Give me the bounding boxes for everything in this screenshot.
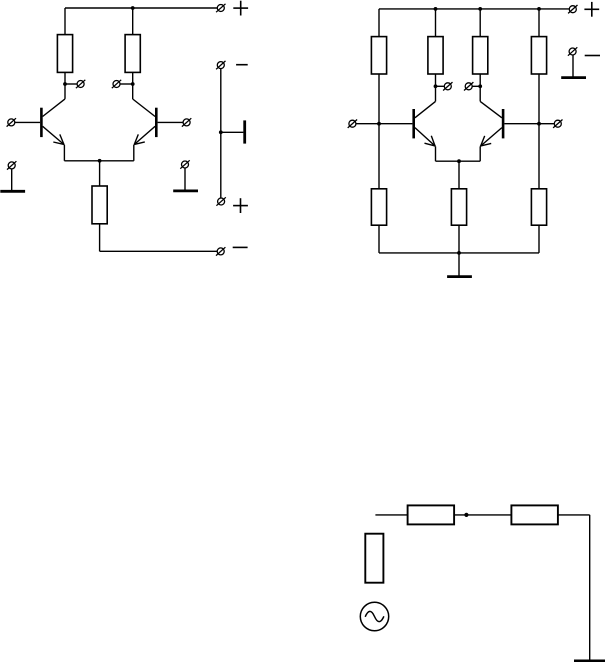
wire to ground 2 [458, 253, 460, 276]
ground circuit2 [447, 275, 472, 278]
resistor R3 (tail) [92, 186, 107, 224]
junction emitter node [98, 159, 102, 163]
resistor R7 [531, 37, 546, 74]
terminal input 3 [348, 120, 357, 128]
label - (ref) [585, 55, 600, 57]
wire to ground right [184, 168, 186, 191]
wire ref to ground [572, 55, 574, 77]
wire R5 to Q3 collector [435, 74, 437, 101]
wire to R9 tail [458, 161, 460, 189]
resistor R4 [371, 37, 386, 74]
wire R12 to corner [558, 514, 590, 516]
transistor Q4 [480, 101, 503, 146]
wire right bias rail [538, 74, 540, 189]
wire R1 to Q1 collector [64, 72, 66, 99]
wire down to ground [589, 515, 591, 661]
wire base Q3 [379, 123, 412, 125]
terminal supply plus [216, 197, 225, 205]
wire emitters join 2 [436, 160, 481, 162]
label - (supply top) [236, 64, 248, 66]
resistor R2 [125, 35, 140, 73]
terminal supply minus [216, 61, 225, 69]
terminal output A [76, 80, 85, 88]
junction collector node C [434, 84, 438, 88]
junction emitter node 2 [457, 159, 461, 163]
wire input 4 stub [539, 123, 554, 125]
transistor Q3 [414, 101, 436, 146]
wire node D stub [472, 85, 480, 87]
wire rail to R6 [479, 9, 481, 37]
terminal gnd-ref left [7, 161, 16, 169]
wire R8 to bottom rail [378, 225, 380, 253]
wire rail to R2 [132, 8, 134, 35]
transistor Q1 [41, 99, 65, 145]
terminal input 4 [553, 120, 562, 128]
terminal gnd-ref right [180, 160, 189, 168]
wire to mid ground [221, 131, 244, 133]
terminal VEE port [216, 247, 225, 255]
wire Q4 emitter down [479, 146, 481, 161]
ground ref [561, 76, 586, 79]
junction mid node [464, 513, 468, 517]
junction collector node A [63, 82, 67, 86]
resistor R8 (left bias) [371, 189, 386, 225]
wire node C stub [436, 85, 445, 87]
junction collector node D [478, 84, 482, 88]
resistor R6 [473, 37, 488, 74]
wire VCC rail [65, 7, 217, 9]
wire Q1 emitter down [63, 145, 65, 161]
terminal output C [443, 82, 452, 90]
ground right [173, 189, 198, 192]
junction rail2/R5 [434, 7, 438, 11]
ground mid (rotated) [243, 120, 246, 143]
wire rail to R4 [378, 9, 380, 37]
wire R9 to bottom rail [458, 225, 460, 253]
wire base Q1 [15, 121, 40, 123]
wire VCC rail 2 [379, 8, 569, 10]
wire Q3 emitter down [435, 146, 437, 161]
wire supply branch [220, 69, 222, 198]
ground left [0, 190, 25, 193]
label + (VCC2) [584, 2, 599, 17]
wire to ground left [11, 169, 13, 191]
terminal ref minus [568, 47, 577, 55]
terminal VCC port [216, 4, 225, 12]
label + (VCC) [233, 1, 248, 16]
wire left lead [375, 514, 407, 516]
label + (supply bottom) [233, 198, 248, 213]
label - (VEE) [233, 246, 248, 248]
terminal output B [112, 80, 121, 88]
terminal input 1 [7, 118, 16, 126]
terminal output D [464, 82, 473, 90]
resistor R12 [511, 505, 558, 524]
terminal VCC port 2 [568, 5, 577, 13]
wire base Q4 [504, 123, 539, 125]
junction rail2/R6 [478, 7, 482, 11]
junction rail2/R7 [537, 7, 541, 11]
wire rail to R5 [435, 9, 437, 37]
terminal input 2 [182, 118, 191, 126]
junction collector node B [131, 82, 135, 86]
wire emitters join [64, 160, 133, 162]
wire bottom rail [379, 252, 539, 254]
junction supply mid [219, 130, 223, 134]
wire R6 to Q4 collector [479, 74, 481, 101]
wire to tail resistor [99, 161, 101, 186]
wire VEE rail [100, 250, 218, 252]
transistor Q2 [133, 99, 157, 145]
junction rail/R2 [131, 6, 135, 10]
wire rail to R7 [538, 9, 540, 37]
wire base Q2 [158, 121, 183, 123]
resistor R9 (tail) [451, 189, 466, 225]
wire rail to R1 [64, 8, 66, 35]
resistor R1 [57, 35, 72, 73]
junction bottom rail [457, 251, 461, 255]
wire R3 to VEE [99, 224, 101, 252]
ac source V1 [360, 602, 388, 630]
resistor R5 [428, 37, 443, 74]
wire R2 to Q2 collector [132, 72, 134, 99]
resistor R10 (right bias) [531, 189, 546, 225]
wire R11 to R12 [454, 514, 511, 516]
junction base Q4 [537, 122, 541, 126]
resistor R11 [408, 505, 455, 524]
resistor R13 (floating) [365, 534, 383, 583]
wire left bias rail [378, 74, 380, 189]
wire R10 to bottom rail [538, 225, 540, 253]
junction base Q3 [377, 122, 381, 126]
wire Q2 emitter down [133, 145, 135, 161]
wire input 3 [356, 123, 379, 125]
wire node A stub [65, 83, 77, 85]
ground circuit3 [574, 660, 605, 662]
wire node B stub [120, 83, 132, 85]
